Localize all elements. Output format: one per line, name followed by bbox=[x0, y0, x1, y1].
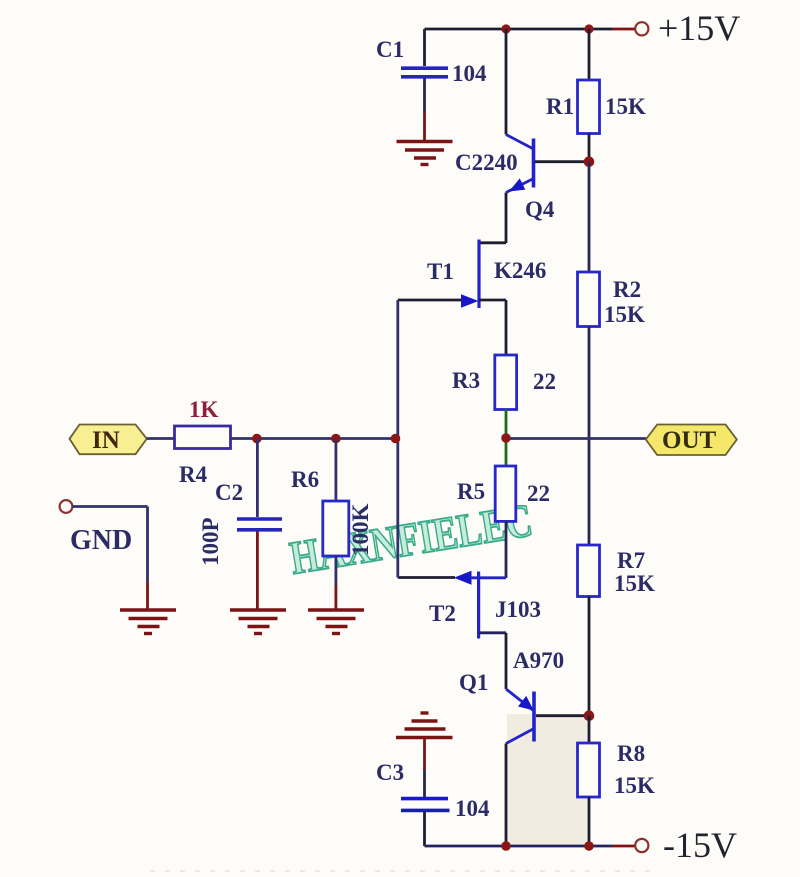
ground (C1) bbox=[397, 142, 453, 165]
wire GND to ground bbox=[73, 507, 148, 611]
svg-text:R8: R8 bbox=[617, 741, 645, 766]
svg-text:K246: K246 bbox=[494, 258, 546, 283]
transistor T1 (K246 JFET) bbox=[398, 240, 506, 356]
terminal IN hexagon bbox=[70, 425, 147, 455]
capacitor C2 bbox=[237, 439, 282, 611]
wire top +15V rail bbox=[425, 28, 635, 31]
node dot input / C2 bbox=[252, 434, 262, 444]
svg-text:GND: GND bbox=[70, 525, 132, 556]
node dot top rail / center bbox=[501, 24, 510, 33]
svg-text:15K: 15K bbox=[604, 302, 645, 327]
svg-text:C2240: C2240 bbox=[455, 150, 518, 175]
svg-text:A970: A970 bbox=[513, 648, 564, 673]
svg-text:IN: IN bbox=[92, 427, 120, 454]
svg-text:R1: R1 bbox=[546, 94, 574, 119]
node dot Q1 base / R7 R8 bbox=[584, 710, 595, 721]
svg-text:15K: 15K bbox=[605, 94, 646, 119]
node dot Q4 base / R1 bbox=[584, 156, 595, 167]
svg-text:T2: T2 bbox=[429, 601, 456, 626]
wire IN to R4 bbox=[147, 437, 175, 440]
transistor Q4 (C2240 NPN) bbox=[506, 29, 589, 243]
shaded region near Q1/R8 bbox=[507, 714, 589, 846]
node dot input / gate line bbox=[391, 434, 401, 444]
resistor R4 bbox=[175, 426, 231, 449]
svg-text:R5: R5 bbox=[457, 479, 485, 504]
terminal -15V bbox=[635, 839, 648, 852]
node dot top rail / R1 bbox=[584, 24, 593, 33]
resistor R7 bbox=[578, 545, 600, 716]
resistor R5 bbox=[495, 466, 516, 578]
bottom scan artifact bbox=[150, 870, 655, 872]
svg-text:R3: R3 bbox=[452, 368, 480, 393]
svg-text:T1: T1 bbox=[427, 259, 454, 284]
wire T2 gate vertical bbox=[396, 438, 399, 578]
svg-text:104: 104 bbox=[455, 796, 490, 821]
svg-text:100K: 100K bbox=[348, 504, 373, 557]
svg-text:15K: 15K bbox=[614, 571, 655, 596]
svg-text:J103: J103 bbox=[495, 597, 541, 622]
svg-text:C2: C2 bbox=[215, 480, 243, 505]
svg-text:22: 22 bbox=[527, 481, 550, 506]
svg-text:C3: C3 bbox=[376, 760, 404, 785]
wire T1 gate vertical bbox=[396, 300, 399, 438]
svg-text:R6: R6 bbox=[291, 467, 319, 492]
terminal OUT hexagon bbox=[646, 425, 737, 456]
transistor T2 (J103 JFET) bbox=[398, 571, 506, 689]
node dot bottom rail / Q1 bbox=[501, 841, 511, 851]
wire bottom -15V rail bbox=[425, 845, 636, 848]
ground inverted (above C3) bbox=[396, 713, 453, 738]
node dot output bbox=[501, 433, 511, 443]
capacitor C3 bbox=[401, 738, 450, 847]
svg-text:Q1: Q1 bbox=[459, 670, 488, 695]
svg-text:-15V: -15V bbox=[663, 825, 737, 865]
capacitor C1 bbox=[401, 29, 448, 141]
terminal +15V bbox=[635, 22, 648, 35]
resistor R2 bbox=[578, 272, 600, 545]
svg-text:104: 104 bbox=[452, 61, 487, 86]
watermark HAXNFIELEC bbox=[286, 494, 536, 585]
svg-text:OUT: OUT bbox=[662, 427, 717, 454]
ground (R6) bbox=[308, 610, 364, 634]
wire output row bbox=[510, 437, 646, 440]
node dot bottom rail / R8 bbox=[584, 841, 594, 851]
svg-text:R4: R4 bbox=[179, 462, 208, 487]
wire input row bbox=[231, 437, 398, 440]
wire right rail R1 to R2 bbox=[588, 162, 591, 272]
svg-text:22: 22 bbox=[533, 369, 556, 394]
svg-text:1K: 1K bbox=[189, 397, 219, 422]
ground (C2) bbox=[230, 610, 286, 634]
svg-text:+15V: +15V bbox=[658, 8, 740, 48]
svg-text:R7: R7 bbox=[617, 548, 645, 573]
wire green R3 to node bbox=[505, 410, 508, 439]
svg-text:100P: 100P bbox=[198, 517, 223, 566]
resistor R6 bbox=[323, 439, 349, 611]
resistor R8 bbox=[578, 716, 600, 846]
terminal GND bbox=[60, 500, 73, 513]
ground (GND) bbox=[120, 610, 176, 634]
transistor Q1 (A970 PNP) bbox=[506, 689, 589, 846]
wire green node to R5 bbox=[505, 438, 508, 466]
resistor R1 bbox=[578, 29, 600, 162]
svg-text:C1: C1 bbox=[376, 37, 404, 62]
svg-text:Q4: Q4 bbox=[525, 197, 555, 222]
node dot input / R6 bbox=[331, 434, 341, 444]
svg-text:R2: R2 bbox=[613, 277, 641, 302]
resistor R3 bbox=[495, 355, 517, 410]
svg-text:15K: 15K bbox=[614, 773, 655, 798]
